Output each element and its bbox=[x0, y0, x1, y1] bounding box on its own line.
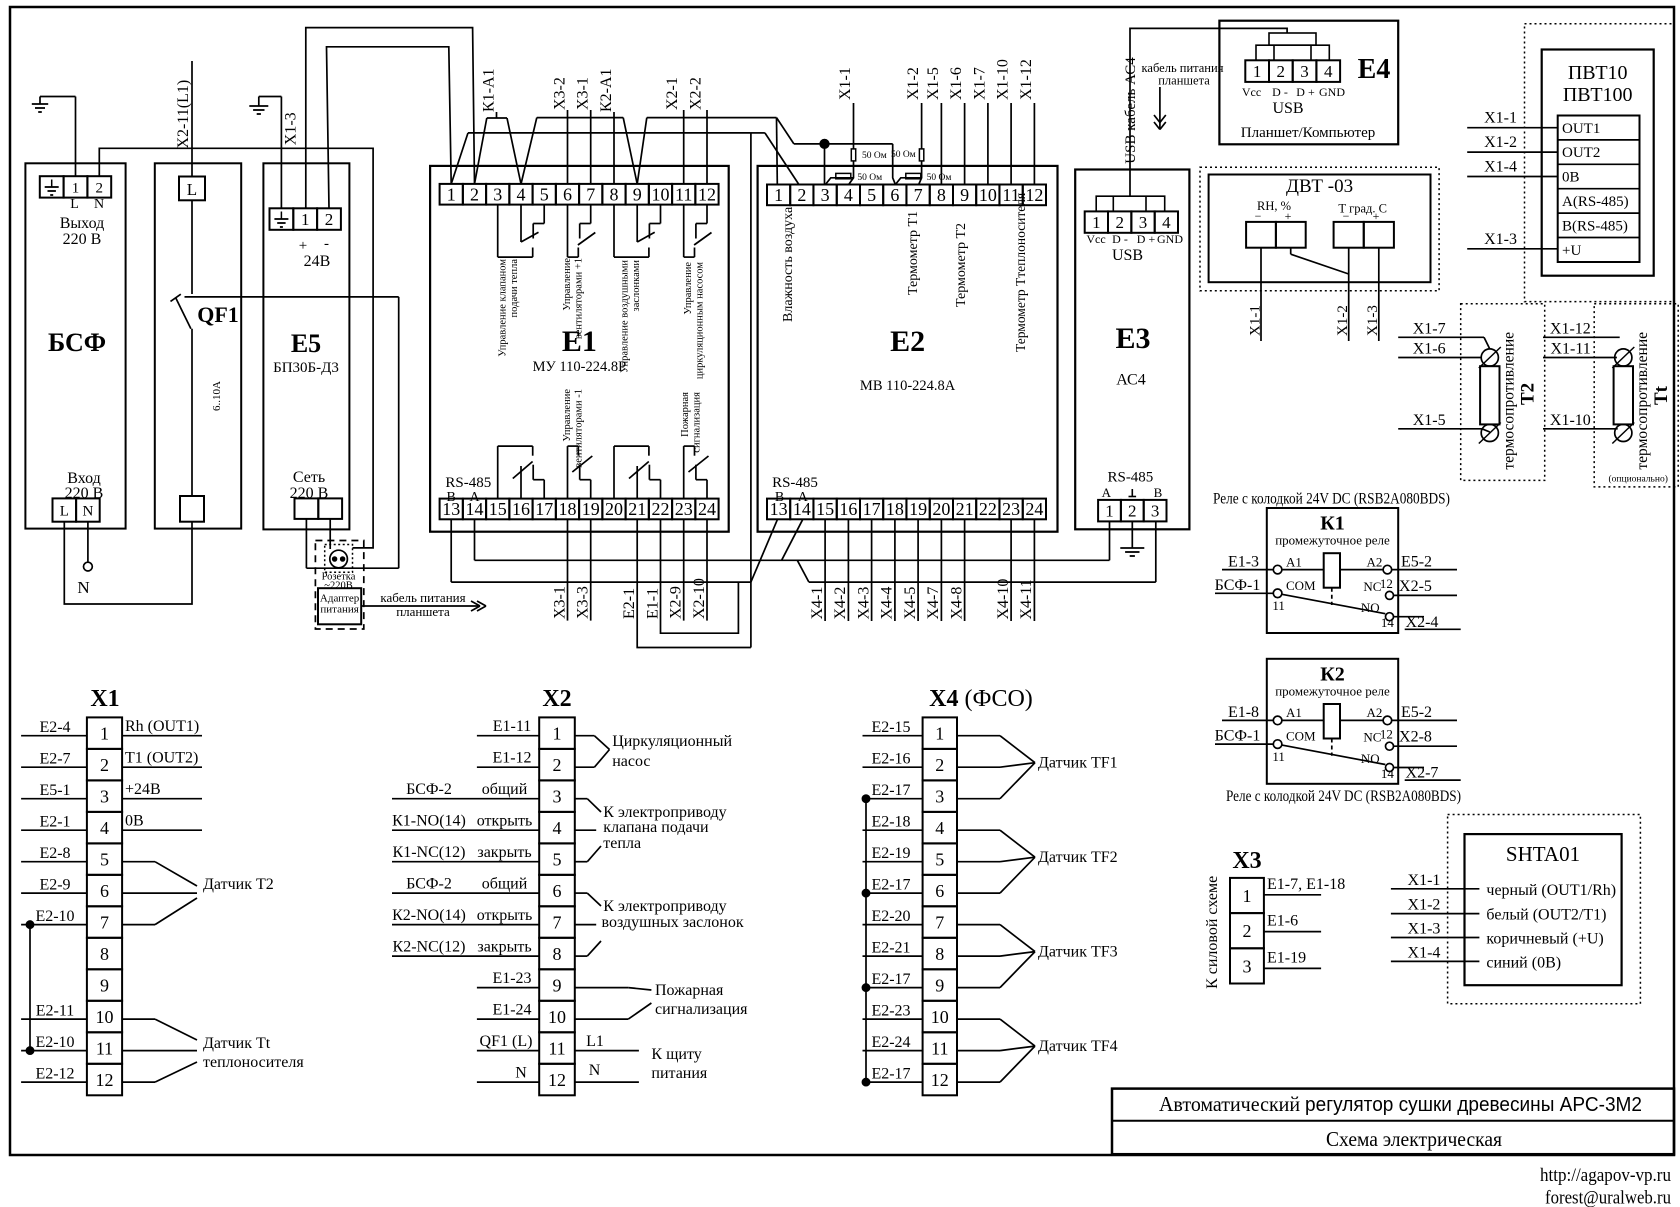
svg-text:промежуточное реле: промежуточное реле bbox=[1275, 533, 1390, 548]
svg-text:4: 4 bbox=[517, 184, 526, 204]
svg-text:+: + bbox=[1373, 209, 1380, 223]
svg-text:16: 16 bbox=[512, 499, 530, 519]
svg-text:К2: К2 bbox=[1320, 663, 1345, 685]
svg-text:Е1-11: Е1-11 bbox=[493, 718, 532, 735]
svg-text:2: 2 bbox=[1243, 921, 1252, 941]
svg-text:Пожарная: Пожарная bbox=[655, 982, 724, 999]
svg-text:Vcc: Vcc bbox=[1242, 85, 1261, 99]
svg-text:Х3-3: Х3-3 bbox=[575, 586, 592, 619]
svg-text:6: 6 bbox=[935, 881, 944, 901]
svg-text:Х1-7: Х1-7 bbox=[1413, 320, 1446, 337]
svg-text:L: L bbox=[60, 504, 69, 520]
svg-text:Циркуляционный: Циркуляционный bbox=[612, 733, 732, 750]
svg-text:5: 5 bbox=[540, 184, 549, 204]
svg-text:12: 12 bbox=[1380, 727, 1393, 742]
svg-text:Е1-7, Е1-18: Е1-7, Е1-18 bbox=[1267, 876, 1345, 893]
svg-text:Х1-6: Х1-6 bbox=[948, 67, 965, 100]
svg-text:50 Ом: 50 Ом bbox=[857, 173, 882, 183]
svg-text:3: 3 bbox=[553, 787, 562, 807]
svg-text:21: 21 bbox=[628, 499, 646, 519]
svg-text:24: 24 bbox=[698, 499, 716, 519]
svg-text:Пожарная: Пожарная bbox=[680, 392, 691, 437]
svg-text:Е2-17: Е2-17 bbox=[871, 1066, 910, 1083]
svg-text:Сеть: Сеть bbox=[293, 469, 325, 486]
svg-text:6: 6 bbox=[890, 185, 899, 205]
svg-text:К1: К1 bbox=[1320, 513, 1345, 535]
svg-text:А: А bbox=[1102, 485, 1112, 500]
svg-text:А1: А1 bbox=[1286, 705, 1302, 720]
svg-text:D +: D + bbox=[1137, 232, 1156, 246]
svg-text:GND: GND bbox=[1319, 85, 1345, 99]
svg-text:Е4: Е4 bbox=[1358, 54, 1391, 85]
svg-text:Х4-4: Х4-4 bbox=[879, 587, 896, 620]
svg-text:N: N bbox=[589, 1062, 601, 1079]
svg-text:Х1-12: Х1-12 bbox=[1018, 59, 1035, 100]
svg-text:Х1-3: Х1-3 bbox=[1408, 921, 1441, 938]
svg-text:-: - bbox=[324, 236, 329, 252]
svg-text:QF1: QF1 bbox=[197, 302, 239, 327]
svg-text:9: 9 bbox=[633, 184, 642, 204]
svg-text:Х3-1: Х3-1 bbox=[575, 77, 592, 110]
svg-text:Х1-3: Х1-3 bbox=[1365, 305, 1381, 336]
svg-text:1: 1 bbox=[935, 724, 944, 744]
svg-text:5: 5 bbox=[867, 185, 876, 205]
svg-text:N: N bbox=[82, 504, 93, 520]
svg-text:7: 7 bbox=[586, 184, 595, 204]
svg-text:В: В bbox=[775, 490, 784, 505]
svg-text:планшета: планшета bbox=[1158, 74, 1210, 88]
svg-text:11: 11 bbox=[96, 1039, 113, 1059]
svg-text:циркуляционным насосом: циркуляционным насосом bbox=[695, 262, 706, 380]
svg-text:10: 10 bbox=[931, 1007, 949, 1027]
svg-text:МВ 110-224.8А: МВ 110-224.8А bbox=[860, 378, 956, 394]
svg-text:6..10А: 6..10А bbox=[211, 381, 223, 411]
svg-text:1: 1 bbox=[1243, 886, 1252, 906]
svg-text:D -: D - bbox=[1272, 85, 1288, 99]
svg-text:Vcc: Vcc bbox=[1086, 232, 1105, 246]
svg-text:GND: GND bbox=[1157, 232, 1183, 246]
svg-text:0В: 0В bbox=[125, 813, 144, 830]
svg-text:N: N bbox=[515, 1065, 527, 1082]
svg-text:7: 7 bbox=[935, 913, 944, 933]
svg-text:Х2-2: Х2-2 bbox=[687, 77, 704, 110]
svg-text:220 В: 220 В bbox=[65, 485, 104, 502]
svg-text:+U: +U bbox=[1562, 243, 1581, 259]
svg-text:4: 4 bbox=[844, 185, 853, 205]
svg-text:черный (OUT1/Rh): черный (OUT1/Rh) bbox=[1486, 882, 1616, 899]
svg-text:Х1-6: Х1-6 bbox=[1413, 341, 1446, 358]
svg-text:2: 2 bbox=[1128, 501, 1137, 520]
svg-text:2: 2 bbox=[935, 755, 944, 775]
svg-text:24: 24 bbox=[1025, 499, 1043, 519]
svg-text:БСФ-2: БСФ-2 bbox=[406, 876, 452, 893]
svg-text:220 В: 220 В bbox=[63, 231, 102, 248]
svg-text:+24В: +24В bbox=[125, 781, 161, 798]
svg-text:ДВТ -03: ДВТ -03 bbox=[1286, 176, 1353, 197]
svg-text:Е1-19: Е1-19 bbox=[1267, 949, 1306, 966]
svg-text:Е2-17: Е2-17 bbox=[871, 782, 910, 799]
svg-text:Е3: Е3 bbox=[1115, 322, 1150, 355]
svg-text:промежуточное реле: промежуточное реле bbox=[1275, 683, 1390, 698]
svg-text:Е2-10: Е2-10 bbox=[35, 1034, 74, 1051]
svg-text:кабель питания: кабель питания bbox=[380, 590, 465, 605]
svg-text:220 В: 220 В bbox=[290, 485, 329, 502]
svg-text:Х1-5: Х1-5 bbox=[1413, 412, 1446, 429]
svg-text:Автоматический регулятор сушки: Автоматический регулятор сушки древесины… bbox=[1159, 1092, 1642, 1116]
svg-text:Х3: Х3 bbox=[1232, 848, 1261, 874]
svg-text:3: 3 bbox=[1243, 956, 1252, 976]
svg-text:~220В: ~220В bbox=[324, 581, 352, 592]
svg-text:(опционально): (опционально) bbox=[1609, 474, 1668, 485]
svg-text:1: 1 bbox=[301, 210, 310, 229]
svg-text:Е2-11: Е2-11 bbox=[36, 1003, 75, 1020]
svg-text:−: − bbox=[1255, 209, 1262, 223]
svg-text:17: 17 bbox=[535, 499, 553, 519]
svg-text:Х1-2: Х1-2 bbox=[1335, 305, 1351, 336]
svg-text:19: 19 bbox=[582, 499, 600, 519]
svg-text:сигнализация: сигнализация bbox=[692, 392, 703, 453]
svg-text:Х2-8: Х2-8 bbox=[1399, 729, 1432, 746]
svg-text:Е2-12: Е2-12 bbox=[35, 1066, 74, 1083]
svg-text:RS-485: RS-485 bbox=[1107, 470, 1153, 486]
svg-text:Е2-19: Е2-19 bbox=[871, 845, 910, 862]
svg-text:Х1-2: Х1-2 bbox=[1484, 134, 1517, 151]
svg-text:NC: NC bbox=[1363, 579, 1381, 594]
svg-text:SHTA01: SHTA01 bbox=[1506, 842, 1580, 866]
svg-text:Х1-1: Х1-1 bbox=[1408, 872, 1441, 889]
svg-text:9: 9 bbox=[553, 976, 562, 996]
svg-text:Е2-8: Е2-8 bbox=[39, 845, 70, 862]
svg-text:Е5-1: Е5-1 bbox=[39, 782, 70, 799]
svg-text:Влажность воздуха: Влажность воздуха bbox=[781, 206, 796, 322]
svg-text:Планшет/Компьютер: Планшет/Компьютер bbox=[1241, 125, 1376, 141]
svg-text:+: + bbox=[299, 238, 307, 254]
svg-text:4: 4 bbox=[935, 818, 944, 838]
svg-text:В: В bbox=[1154, 485, 1163, 500]
svg-text:9: 9 bbox=[960, 185, 969, 205]
svg-text:1: 1 bbox=[72, 181, 80, 197]
svg-text:Х4-1: Х4-1 bbox=[809, 587, 826, 620]
svg-text:Е5-2: Е5-2 bbox=[1401, 704, 1432, 721]
svg-text:18: 18 bbox=[559, 499, 577, 519]
svg-text:12: 12 bbox=[548, 1070, 566, 1090]
svg-text:10: 10 bbox=[96, 1007, 114, 1027]
svg-text:24В: 24В bbox=[304, 253, 331, 270]
svg-text:Х2-4: Х2-4 bbox=[1406, 614, 1439, 631]
svg-text:3: 3 bbox=[935, 787, 944, 807]
svg-text:Т2: Т2 bbox=[1518, 383, 1539, 405]
svg-text:11: 11 bbox=[548, 1039, 565, 1059]
svg-text:ПВТ100: ПВТ100 bbox=[1563, 84, 1633, 106]
svg-text:9: 9 bbox=[100, 976, 109, 996]
svg-text:23: 23 bbox=[675, 499, 693, 519]
svg-text:0В: 0В bbox=[1562, 170, 1580, 186]
svg-text:Датчик TF4: Датчик TF4 bbox=[1038, 1038, 1118, 1055]
svg-text:Е1-1: Е1-1 bbox=[644, 588, 661, 619]
svg-text:19: 19 bbox=[909, 499, 927, 519]
svg-text:7: 7 bbox=[553, 913, 562, 933]
svg-text:Х1-2: Х1-2 bbox=[1408, 897, 1441, 914]
svg-text:Х3-1: Х3-1 bbox=[551, 586, 568, 619]
svg-text:RS-485: RS-485 bbox=[445, 475, 491, 491]
svg-text:D -: D - bbox=[1112, 232, 1128, 246]
svg-text:Х4-7: Х4-7 bbox=[925, 587, 942, 620]
svg-text:X2: X2 bbox=[542, 686, 571, 712]
svg-text:Тt: Тt bbox=[1651, 385, 1672, 405]
svg-text:Х1-10: Х1-10 bbox=[1550, 412, 1591, 429]
svg-text:Е2-23: Е2-23 bbox=[871, 1003, 910, 1020]
svg-text:Х2-5: Х2-5 bbox=[1399, 578, 1432, 595]
svg-text:Х2-9: Х2-9 bbox=[668, 586, 685, 619]
svg-text:Х1-11: Х1-11 bbox=[1551, 341, 1591, 358]
svg-text:Х3-2: Х3-2 bbox=[552, 77, 569, 110]
svg-text:закрыть: закрыть bbox=[477, 844, 531, 861]
svg-text:Е1-24: Е1-24 bbox=[492, 1002, 531, 1019]
svg-text:22: 22 bbox=[652, 499, 670, 519]
svg-text:К2-NC(12): К2-NC(12) bbox=[393, 939, 466, 956]
svg-text:СОМ: СОМ bbox=[1286, 578, 1316, 593]
svg-text:X1: X1 bbox=[90, 686, 119, 712]
svg-text:6: 6 bbox=[563, 184, 572, 204]
svg-text:Е5: Е5 bbox=[291, 329, 321, 358]
svg-text:3: 3 bbox=[100, 787, 109, 807]
svg-text:Управление: Управление bbox=[562, 389, 573, 442]
svg-text:3: 3 bbox=[821, 185, 830, 205]
svg-text:N: N bbox=[94, 197, 104, 212]
svg-text:вентиляторами -1: вентиляторами -1 bbox=[574, 389, 585, 468]
svg-text:Управление: Управление bbox=[562, 258, 573, 311]
svg-text:−: − bbox=[1343, 209, 1350, 223]
svg-text:Термометр Т1: Термометр Т1 bbox=[906, 211, 921, 295]
svg-text:Е2-1: Е2-1 bbox=[621, 588, 638, 619]
svg-text:2: 2 bbox=[470, 184, 479, 204]
svg-text:подачи тепла: подачи тепла bbox=[509, 259, 520, 318]
svg-text:синий (0В): синий (0В) bbox=[1486, 954, 1561, 971]
svg-text:8: 8 bbox=[935, 944, 944, 964]
svg-text:БСФ-1: БСФ-1 bbox=[1215, 728, 1261, 745]
svg-text:Е2-16: Е2-16 bbox=[871, 751, 910, 768]
svg-text:10: 10 bbox=[548, 1007, 566, 1027]
svg-text:А2: А2 bbox=[1367, 705, 1383, 720]
svg-text:Реле с колодкой 24V DC (RSB2A0: Реле с колодкой 24V DC (RSB2A080BDS) bbox=[1213, 491, 1450, 508]
svg-text:планшета: планшета bbox=[396, 604, 450, 619]
svg-text:8: 8 bbox=[610, 184, 619, 204]
svg-text:12: 12 bbox=[1380, 576, 1393, 591]
svg-text:Х4-2: Х4-2 bbox=[832, 587, 849, 620]
svg-text:23: 23 bbox=[1002, 499, 1020, 519]
svg-text:термосопротивление: термосопротивление bbox=[1501, 332, 1518, 470]
svg-text:1: 1 bbox=[447, 184, 456, 204]
svg-text:Датчик TF3: Датчик TF3 bbox=[1038, 944, 1118, 961]
svg-text:1: 1 bbox=[100, 724, 109, 744]
svg-text:5: 5 bbox=[553, 850, 562, 870]
svg-text:Х1-1: Х1-1 bbox=[1248, 305, 1264, 336]
svg-text:вентиляторами +1: вентиляторами +1 bbox=[574, 258, 585, 339]
svg-text:Х1-12: Х1-12 bbox=[1550, 320, 1591, 337]
svg-text:1: 1 bbox=[1105, 501, 1114, 520]
svg-text:Х1-4: Х1-4 bbox=[1408, 944, 1441, 961]
svg-text:6: 6 bbox=[100, 881, 109, 901]
svg-text:клапана подачи: клапана подачи bbox=[603, 819, 709, 836]
svg-text:12: 12 bbox=[1025, 185, 1043, 205]
svg-text:10: 10 bbox=[979, 185, 997, 205]
svg-text:теплоносителя: теплоносителя bbox=[203, 1054, 304, 1071]
svg-text:Е2-21: Е2-21 bbox=[871, 940, 910, 957]
svg-text:Х1-1: Х1-1 bbox=[837, 67, 854, 100]
svg-text:NC: NC bbox=[1363, 730, 1381, 745]
svg-text:питания: питания bbox=[651, 1065, 708, 1082]
svg-text:Датчик TF1: Датчик TF1 bbox=[1038, 755, 1118, 772]
svg-text:2: 2 bbox=[1277, 62, 1286, 81]
svg-text:11: 11 bbox=[1272, 598, 1285, 613]
svg-text:12: 12 bbox=[931, 1070, 949, 1090]
svg-text:А1: А1 bbox=[1286, 554, 1302, 569]
svg-text:закрыть: закрыть bbox=[477, 939, 531, 956]
svg-text:1: 1 bbox=[1092, 213, 1101, 232]
svg-text:БСФ-2: БСФ-2 bbox=[406, 781, 452, 798]
svg-text:1: 1 bbox=[774, 185, 783, 205]
svg-text:открыть: открыть bbox=[477, 907, 533, 924]
svg-text:Х1-7: Х1-7 bbox=[972, 67, 989, 100]
svg-text:USB: USB bbox=[1112, 247, 1143, 264]
svg-text:2: 2 bbox=[553, 755, 562, 775]
svg-text:Е2-18: Е2-18 bbox=[871, 814, 910, 831]
svg-text:11: 11 bbox=[1272, 749, 1285, 764]
svg-text:общий: общий bbox=[482, 781, 528, 798]
svg-text:БП30Б-Д3: БП30Б-Д3 bbox=[273, 360, 339, 376]
svg-text:4: 4 bbox=[1162, 213, 1171, 232]
svg-text:К щиту: К щиту bbox=[651, 1046, 701, 1063]
svg-text:БСФ: БСФ bbox=[48, 328, 106, 357]
svg-text:Х1-4: Х1-4 bbox=[1484, 159, 1517, 176]
svg-text:Х4-8: Х4-8 bbox=[948, 587, 965, 620]
svg-text:Термометр Ттеплоносителя: Термометр Ттеплоносителя bbox=[1013, 193, 1028, 352]
svg-text:L: L bbox=[187, 180, 197, 199]
svg-text:2: 2 bbox=[100, 755, 109, 775]
svg-text:БСФ-1: БСФ-1 bbox=[1215, 577, 1261, 594]
svg-text:15: 15 bbox=[816, 499, 834, 519]
svg-text:К1-NC(12): К1-NC(12) bbox=[393, 844, 466, 861]
svg-text:17: 17 bbox=[863, 499, 881, 519]
svg-text:Е2-20: Е2-20 bbox=[871, 908, 910, 925]
svg-text:Схема электрическая: Схема электрическая bbox=[1326, 1127, 1502, 1151]
svg-text:OUT1: OUT1 bbox=[1562, 121, 1600, 137]
svg-text:СОМ: СОМ bbox=[1286, 729, 1316, 744]
svg-text:общий: общий bbox=[482, 876, 528, 893]
svg-text:А2: А2 bbox=[1367, 554, 1383, 569]
svg-text:Датчик TF2: Датчик TF2 bbox=[1038, 849, 1118, 866]
svg-text:ПВТ10: ПВТ10 bbox=[1568, 62, 1628, 84]
svg-text:Е1-8: Е1-8 bbox=[1228, 704, 1259, 721]
svg-text:2: 2 bbox=[797, 185, 806, 205]
svg-text:Е2: Е2 bbox=[890, 325, 925, 358]
svg-text:В: В bbox=[447, 490, 456, 505]
svg-text:NO: NO bbox=[1361, 600, 1380, 615]
svg-text:N: N bbox=[77, 578, 89, 597]
svg-text:USB кабель АС4: USB кабель АС4 bbox=[1123, 57, 1139, 164]
svg-text:К1-А1: К1-А1 bbox=[481, 68, 498, 112]
svg-text:4: 4 bbox=[1324, 62, 1333, 81]
svg-text:18: 18 bbox=[886, 499, 904, 519]
svg-text:2: 2 bbox=[1115, 213, 1124, 232]
svg-text:Х1-3: Х1-3 bbox=[283, 112, 300, 145]
svg-text:22: 22 bbox=[979, 499, 997, 519]
svg-text:Х1-1: Х1-1 bbox=[1484, 110, 1517, 127]
svg-text:20: 20 bbox=[605, 499, 623, 519]
svg-text:3: 3 bbox=[493, 184, 502, 204]
svg-text:белый (OUT2/T1): белый (OUT2/T1) bbox=[1486, 907, 1606, 924]
svg-text:D +: D + bbox=[1296, 85, 1315, 99]
svg-text:3: 3 bbox=[1139, 213, 1148, 232]
svg-text:Е2-9: Е2-9 bbox=[39, 877, 70, 894]
svg-text:Х4 (ФСО): Х4 (ФСО) bbox=[929, 686, 1033, 712]
svg-text:насос: насос bbox=[612, 753, 650, 770]
svg-text:7: 7 bbox=[100, 913, 109, 933]
svg-text:15: 15 bbox=[489, 499, 507, 519]
svg-text:Х2-1: Х2-1 bbox=[664, 77, 681, 110]
svg-text:5: 5 bbox=[100, 850, 109, 870]
svg-text:1: 1 bbox=[553, 724, 562, 744]
svg-text:Управление клапаном: Управление клапаном bbox=[498, 259, 509, 357]
svg-text:12: 12 bbox=[96, 1070, 114, 1090]
svg-text:Х4-5: Х4-5 bbox=[902, 587, 919, 620]
svg-text:заслонками: заслонками bbox=[631, 260, 642, 312]
svg-text:К1-NO(14): К1-NO(14) bbox=[392, 813, 466, 830]
svg-text:T1 (OUT2): T1 (OUT2) bbox=[125, 750, 198, 767]
svg-text:Е1-3: Е1-3 bbox=[1228, 553, 1259, 570]
svg-text:В(RS-485): В(RS-485) bbox=[1562, 218, 1628, 234]
svg-text:Е1-23: Е1-23 bbox=[492, 970, 531, 987]
svg-text:9: 9 bbox=[935, 976, 944, 996]
svg-text:Датчик Тt: Датчик Тt bbox=[203, 1035, 271, 1052]
svg-text:Rh (OUT1): Rh (OUT1) bbox=[125, 718, 199, 735]
svg-text:Х2-10: Х2-10 bbox=[691, 578, 708, 619]
svg-text:К силовой схеме: К силовой схеме bbox=[1204, 876, 1221, 989]
svg-text:5: 5 bbox=[935, 850, 944, 870]
svg-text:11: 11 bbox=[931, 1039, 948, 1059]
svg-text:20: 20 bbox=[932, 499, 950, 519]
svg-text:Х2-11(L1): Х2-11(L1) bbox=[175, 80, 192, 149]
svg-text:8: 8 bbox=[937, 185, 946, 205]
svg-text:Управление: Управление bbox=[683, 262, 694, 315]
svg-text:Выход: Выход bbox=[60, 215, 105, 232]
svg-text:NO: NO bbox=[1361, 751, 1380, 766]
svg-text:Е5-2: Е5-2 bbox=[1401, 553, 1432, 570]
svg-text:К2-NO(14): К2-NO(14) bbox=[392, 907, 466, 924]
svg-text:Реле с колодкой 24V DC (RSB2A0: Реле с колодкой 24V DC (RSB2A080BDS) bbox=[1226, 788, 1461, 805]
svg-text:10: 10 bbox=[652, 184, 670, 204]
svg-text:тепла: тепла bbox=[603, 835, 641, 852]
svg-text:питания: питания bbox=[320, 604, 358, 616]
svg-text:Х4-3: Х4-3 bbox=[855, 587, 872, 620]
svg-text:L1: L1 bbox=[586, 1033, 604, 1050]
svg-text:Х2-7: Х2-7 bbox=[1406, 765, 1439, 782]
svg-text:Е1-12: Е1-12 bbox=[492, 750, 531, 767]
svg-text:воздушных заслонок: воздушных заслонок bbox=[602, 914, 744, 931]
svg-text:3: 3 bbox=[1300, 62, 1309, 81]
svg-text:Управление воздушными: Управление воздушными bbox=[620, 260, 631, 373]
svg-text:Е2-17: Е2-17 bbox=[871, 877, 910, 894]
svg-text:1: 1 bbox=[1253, 62, 1262, 81]
svg-text:2: 2 bbox=[96, 181, 104, 197]
svg-text:Е2-1: Е2-1 bbox=[39, 814, 70, 831]
svg-text:открыть: открыть bbox=[477, 813, 533, 830]
svg-text:2: 2 bbox=[325, 210, 334, 229]
svg-text:Датчик Т2: Датчик Т2 bbox=[203, 876, 274, 893]
svg-text:7: 7 bbox=[914, 185, 923, 205]
svg-text:К электроприводу: К электроприводу bbox=[603, 898, 726, 915]
svg-text:USB: USB bbox=[1272, 100, 1303, 117]
